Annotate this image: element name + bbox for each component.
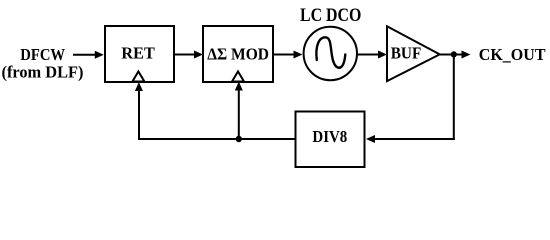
wire clock to RET bbox=[138, 89, 140, 141]
svg-text:DFCW: DFCW bbox=[20, 45, 65, 64]
wire RET to DSM bbox=[174, 54, 196, 56]
arrowhead into RET bbox=[95, 51, 104, 59]
svg-text:CK_OUT: CK_OUT bbox=[479, 45, 546, 64]
svg-text:RET: RET bbox=[121, 44, 155, 63]
clock triangle DSM bbox=[232, 72, 244, 82]
arrowhead into DSM bbox=[194, 51, 203, 59]
buffer BUF bbox=[387, 26, 440, 81]
block Delta-Sigma MOD bbox=[203, 26, 273, 82]
wire LC DCO to BUF bbox=[357, 54, 380, 56]
arrowhead clock DSM bbox=[235, 82, 243, 91]
junction dot feedback bbox=[236, 136, 242, 142]
svg-text:LC DCO: LC DCO bbox=[300, 6, 361, 26]
block RET bbox=[105, 26, 174, 82]
junction dot bbox=[451, 51, 457, 57]
wire feedback vertical right bbox=[453, 55, 455, 141]
svg-text:ΔΣ MOD: ΔΣ MOD bbox=[207, 44, 269, 63]
sine wave bbox=[316, 37, 345, 67]
arrowhead into BUF bbox=[378, 51, 387, 59]
wire BUF to CK_OUT bbox=[440, 54, 463, 56]
arrowhead into DIV8 bbox=[366, 135, 375, 143]
svg-text:(from DLF): (from DLF) bbox=[2, 62, 84, 81]
arrowhead to CK_OUT bbox=[462, 51, 471, 59]
wire DSM to LC DCO bbox=[273, 54, 295, 56]
arrowhead into LC DCO bbox=[294, 51, 303, 59]
block DIV8 bbox=[296, 112, 365, 168]
clock triangle RET bbox=[132, 72, 144, 82]
svg-text:DIV8: DIV8 bbox=[312, 127, 347, 146]
oscillator LC DCO bbox=[304, 27, 357, 80]
svg-text:BUF: BUF bbox=[391, 43, 422, 62]
arrowhead clock RET bbox=[135, 82, 143, 91]
node label DFCW (from DLF) bbox=[2, 45, 84, 81]
wire clock to DSM bbox=[238, 88, 240, 139]
wire DFCW to RET bbox=[73, 54, 97, 56]
wire feedback to DIV8 bbox=[373, 138, 455, 140]
wire DIV8 output left bbox=[138, 138, 296, 140]
